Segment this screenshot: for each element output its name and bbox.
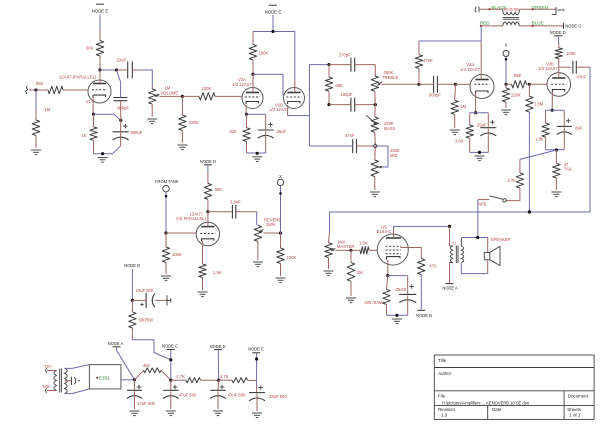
node input junction <box>34 88 37 91</box>
wire RED primary lead <box>481 25 503 27</box>
wire GREEN secondary lead <box>519 8 556 10</box>
wire 470K to V3a plate node <box>419 40 481 42</box>
svg-text:3.6K: 3.6K <box>455 139 464 144</box>
node bass mid junction diamond <box>373 144 377 148</box>
svg-text:T2B: T2B <box>42 384 50 389</box>
svg-text:270pF: 270pF <box>339 52 351 57</box>
svg-text:NODE B: NODE B <box>124 263 140 268</box>
ground input load <box>31 149 41 151</box>
wire V2B plate to node E rail <box>294 32 296 81</box>
potentiometer 1MA MASTER <box>329 232 330 243</box>
wire V2A plate to V2B grid <box>253 74 283 95</box>
wire output bus right <box>589 67 591 212</box>
svg-text:NFB: NFB <box>478 201 487 206</box>
ground node C cap <box>166 410 176 412</box>
svg-text:NODE D: NODE D <box>210 344 226 349</box>
node treble mix junction <box>417 83 420 86</box>
rectifier U EZ81 <box>65 365 90 369</box>
ground reverb pot <box>253 261 263 263</box>
ground V3a cathode <box>475 155 485 157</box>
lead V1 cathode <box>92 98 94 115</box>
wire cathode network top <box>247 113 266 115</box>
wire mid pot loop <box>375 146 388 167</box>
svg-text:2.7K: 2.7K <box>507 178 516 183</box>
resistor 56K V4 plate load <box>207 166 209 174</box>
resistor 1M V3a grid leak <box>454 84 457 100</box>
capacitor 800uF cathode bypass <box>113 131 129 133</box>
ground 220K reverb out <box>276 277 286 279</box>
node B+ junction <box>133 378 136 381</box>
svg-text:4.7K: 4.7K <box>220 374 229 379</box>
resistor 100K V3b plate load <box>557 37 560 45</box>
wire to treble pot top <box>374 65 376 76</box>
wire EZ81 output to B+ <box>121 379 135 381</box>
wire treble wiper to mix node <box>382 83 420 85</box>
svg-text:47uF 500: 47uF 500 <box>179 393 197 398</box>
ground volume pot <box>147 118 157 120</box>
wire BLACK secondary lead <box>479 8 503 10</box>
svg-text:470K: 470K <box>423 58 433 63</box>
ground V2A cathode <box>252 156 262 158</box>
svg-text:V4( PARALLEL): V4( PARALLEL) <box>176 216 207 221</box>
wire signal bus to master volume <box>330 212 591 232</box>
svg-text:1/2 12AX7: 1/2 12AX7 <box>538 66 558 71</box>
node U5 cathode junction <box>386 274 389 277</box>
terminal 10uF return <box>166 295 168 305</box>
svg-text:56K: 56K <box>215 187 223 192</box>
svg-text:500pF: 500pF <box>429 93 441 98</box>
potentiometer 1M VOLUME <box>151 86 153 89</box>
svg-text:47nF: 47nF <box>577 74 587 79</box>
svg-text:SPEAKER: SPEAKER <box>491 237 511 242</box>
svg-text:NODE D: NODE D <box>200 159 216 164</box>
svg-text:BASS: BASS <box>384 126 395 131</box>
resistor 47 TAIL <box>555 150 557 163</box>
node V3a grid junction <box>454 83 457 86</box>
wire OT secondary to speaker <box>460 238 462 247</box>
wire to reverb pot <box>256 212 258 226</box>
wire NFB diagonal <box>520 150 557 159</box>
wire V3b cathode network top <box>546 109 565 111</box>
svg-text:MASTER: MASTER <box>337 244 354 249</box>
wire node E rail V2 <box>253 31 295 33</box>
svg-text:TAIL: TAIL <box>564 167 573 172</box>
svg-text:NODE E: NODE E <box>92 9 109 14</box>
svg-text:BLUE: BLUE <box>532 21 544 26</box>
capacitor 47uF 500 node C <box>170 380 172 390</box>
wire reverb wiper <box>264 232 281 234</box>
wire cathode network bottom rail <box>387 314 408 316</box>
svg-text:22uF: 22uF <box>117 58 127 63</box>
lead V3b cathode <box>551 92 553 110</box>
node B stub screen supply <box>420 275 422 310</box>
resistor 100K tank load <box>165 233 167 247</box>
node B junction <box>131 299 134 302</box>
svg-text:100pF: 100pF <box>341 92 353 97</box>
svg-text:1.8M: 1.8M <box>534 102 544 107</box>
svg-text:220K: 220K <box>202 86 212 91</box>
wire cathode bottom rail <box>94 146 121 154</box>
svg-text:EL84-C: EL84-C <box>377 229 391 234</box>
ground 220K <box>177 144 187 146</box>
lead V3a plate <box>480 41 482 80</box>
svg-text:tank: tank <box>558 8 565 12</box>
capacitor 47uF 500 node D <box>217 380 220 390</box>
node V3b cathode junction <box>551 109 554 112</box>
svg-text:1 of 1: 1 of 1 <box>569 412 581 417</box>
svg-text:1/2 12AX7: 1/2 12AX7 <box>460 67 480 72</box>
ground 100K tank <box>161 275 171 277</box>
lead V4 grid <box>166 232 197 234</box>
node V3b grid junction <box>528 83 531 86</box>
wire NFB to output transformer <box>477 200 479 238</box>
wire tone stack left bus <box>308 65 310 146</box>
lead reverb pot bottom <box>257 241 259 260</box>
svg-text:NODE B: NODE B <box>416 313 432 318</box>
svg-text:100K: 100K <box>172 252 182 257</box>
svg-text:Revision: Revision <box>438 407 455 412</box>
wire master wiper <box>335 249 351 251</box>
svg-text:10uF 500: 10uF 500 <box>136 288 154 293</box>
svg-text:4.7K: 4.7K <box>176 374 185 379</box>
wire V3a cathode network top <box>470 112 489 114</box>
svg-text:500pF: 500pF <box>117 106 129 111</box>
capacitor 500pF <box>113 97 127 99</box>
svg-text:NODE A: NODE A <box>442 286 458 291</box>
wire volume wiper <box>160 95 183 97</box>
svg-text:T2A: T2A <box>44 364 52 369</box>
wire 500/5W to node C <box>132 340 170 360</box>
svg-text:400 /6.5W: 400 /6.5W <box>364 300 383 305</box>
svg-text:25uF: 25uF <box>277 129 287 134</box>
svg-text:T1: T1 <box>452 242 456 246</box>
node V4 plate junction <box>206 210 209 213</box>
ground node E cap <box>252 412 262 414</box>
resistor 220K reverb out <box>280 233 282 248</box>
svg-text:220K: 220K <box>287 255 297 260</box>
resistor 220K reverb mix <box>505 84 507 88</box>
capacitor 8uF bypass <box>557 125 572 127</box>
ground 1M master <box>346 297 356 299</box>
svg-text:86K: 86K <box>36 81 44 86</box>
svg-text:Document: Document <box>568 393 589 398</box>
svg-text:8uF: 8uF <box>575 125 583 130</box>
resistor 68K plate load V1 <box>96 41 103 57</box>
ground V4 cathode <box>198 291 208 293</box>
svg-text:MID: MID <box>390 153 398 158</box>
resistor 470K <box>418 68 420 84</box>
svg-text:1M: 1M <box>460 104 466 109</box>
lead R68K to plate node <box>99 56 101 70</box>
wire cathode network bottom <box>247 152 266 154</box>
node V1 cathode junction <box>92 113 95 116</box>
lead V2A cathode <box>245 105 247 114</box>
resistor 220K to ground <box>181 96 183 115</box>
svg-text:4k6: 4k6 <box>143 363 150 368</box>
capacitor 25uF cathode bypass <box>258 129 274 131</box>
resistor 500/5W dropper <box>131 300 133 312</box>
node mid rail junction <box>327 103 330 106</box>
svg-text:1K: 1K <box>81 133 86 138</box>
svg-text:68K: 68K <box>335 83 343 88</box>
svg-text:NODE D: NODE D <box>550 30 566 35</box>
svg-text:File: File <box>438 394 446 399</box>
node V1 plate junction <box>98 68 101 71</box>
lead V1 plate <box>99 70 101 84</box>
node V2A plate junction <box>251 73 254 76</box>
wire plate node to coupling cap <box>100 69 117 71</box>
svg-text:800uF: 800uF <box>130 130 142 135</box>
svg-text:RED: RED <box>480 21 490 26</box>
svg-text:1.0: 1.0 <box>441 412 448 417</box>
svg-text:1.5K: 1.5K <box>213 270 222 275</box>
node C terminal right <box>563 23 565 29</box>
wire top rail to 270pF <box>309 64 329 66</box>
node E stub (V2 supply) <box>269 4 277 6</box>
svg-text:NODE C: NODE C <box>565 23 581 28</box>
lead V2B cathode to tone bus <box>287 105 289 116</box>
resistor 1.8k V3b cathode <box>545 110 547 123</box>
terminal tank <box>555 7 557 15</box>
svg-text:66K: 66K <box>86 46 94 51</box>
node X junction <box>504 83 507 86</box>
capacitor 25uF V3a bypass <box>480 127 496 129</box>
svg-text:EZ81: EZ81 <box>99 376 110 381</box>
lead master pot bottom <box>328 258 330 269</box>
lead V3a grid <box>456 83 471 85</box>
resistor 100K V2A plate load <box>252 32 254 45</box>
ground master pot <box>324 270 334 272</box>
svg-text:X: X <box>279 174 282 179</box>
svg-text:25uF: 25uF <box>477 123 487 128</box>
resistor 1M master load <box>350 250 352 262</box>
svg-text:1.8k: 1.8k <box>535 137 544 142</box>
capacitor 25/40 cathode bypass <box>388 275 408 277</box>
svg-text:1M: 1M <box>45 107 51 112</box>
wire transformer center tap <box>65 380 72 382</box>
lead V3b grid <box>529 83 547 85</box>
resistor 1.8M grid leak <box>528 84 530 96</box>
wire plate junction to 500pF <box>117 70 121 97</box>
svg-text:TREBLE: TREBLE <box>382 75 398 80</box>
svg-text:NODE C: NODE C <box>162 343 178 348</box>
svg-text:220K: 220K <box>189 120 199 125</box>
resistor 1.5K V4 cathode <box>199 264 206 278</box>
node E stub (V1 plate supply) <box>96 3 104 5</box>
lead bass bottom <box>374 132 377 146</box>
svg-text:68K: 68K <box>514 73 522 78</box>
resistor 1M input load <box>35 90 37 110</box>
ground V1 cathode <box>98 157 108 159</box>
svg-text:VOLUME: VOLUME <box>161 90 179 95</box>
svg-text:1/2 12AX7: 1/2 12AX7 <box>269 107 289 112</box>
ground mid pot <box>370 191 380 193</box>
svg-text:100K: 100K <box>259 50 269 55</box>
svg-text:33uF 500: 33uF 500 <box>269 394 287 399</box>
resistor 1K cathode <box>93 114 95 127</box>
svg-text:12AX7 (PARALLEL): 12AX7 (PARALLEL) <box>59 74 97 79</box>
wire U5 plate to output transformer <box>393 230 395 238</box>
svg-text:X: X <box>505 43 508 48</box>
svg-text:250K: 250K <box>266 222 276 227</box>
svg-text:47nF: 47nF <box>345 133 355 138</box>
svg-text:REVERB: REVERB <box>504 8 519 12</box>
svg-text:100K: 100K <box>566 51 576 56</box>
lead U5 cathode <box>387 260 389 276</box>
resistor 470 screen <box>418 258 425 274</box>
svg-text:NODE A: NODE A <box>108 341 124 346</box>
svg-text:1M: 1M <box>357 270 363 275</box>
ground main filter <box>130 410 140 412</box>
node V2A cathode junction <box>245 113 248 116</box>
capacitor 33uF 500 node E <box>256 381 258 385</box>
title block <box>434 355 594 419</box>
wire V3a cathode network bottom <box>470 151 489 153</box>
lead V4 cathode <box>202 241 204 265</box>
resistor 2.7K NFB <box>519 159 521 173</box>
svg-text:V1: V1 <box>86 99 92 104</box>
svg-text:3.3nF: 3.3nF <box>230 200 241 205</box>
capacitor 47uF 500 main filter <box>134 380 136 391</box>
resistor 3.6K <box>469 113 471 125</box>
svg-text:1/2 12AX7: 1/2 12AX7 <box>232 82 252 87</box>
node D junction <box>217 379 220 382</box>
node C junction <box>169 379 172 382</box>
node V4 grid junction <box>164 231 167 234</box>
terminal reverb send jack <box>475 7 476 12</box>
svg-text:1.5K: 1.5K <box>359 240 368 245</box>
wire cathode to bypass caps <box>94 114 121 120</box>
wire RED down to V3a plate <box>480 26 482 41</box>
svg-text:Author: Author <box>438 371 451 376</box>
svg-text:500/5W: 500/5W <box>139 317 153 322</box>
svg-text:FROM TANK: FROM TANK <box>155 179 179 184</box>
input jack S <box>26 87 28 94</box>
svg-text:470: 470 <box>429 263 437 268</box>
lead V3a cathode <box>475 94 477 113</box>
wire 22uF to volume pot <box>140 70 152 86</box>
ground 1M <box>450 129 460 131</box>
node A stub OT primary <box>449 263 451 284</box>
switch NFB <box>503 199 506 202</box>
ground 220K reverb <box>501 109 511 111</box>
wire 1.8M to signal bus <box>528 112 530 212</box>
lead volume pot bottom <box>151 104 153 117</box>
svg-text:NODE E: NODE E <box>265 10 282 15</box>
capacitor 47nF output coupling <box>559 66 571 68</box>
wire node E to R 68K <box>99 15 101 31</box>
lead U5 screen grid <box>401 246 421 258</box>
svg-text:220K: 220K <box>511 93 521 98</box>
svg-text:47uF 500: 47uF 500 <box>137 401 155 406</box>
svg-text:Sheets: Sheets <box>567 407 581 412</box>
svg-text:H:\pictures\Amplifiers ... K: H:\pictures\Amplifiers ... KENOVERB 10 S… <box>442 401 530 406</box>
svg-text:820: 820 <box>230 129 238 134</box>
wire V3b cathode network bottom <box>546 149 565 151</box>
ground node D cap <box>213 410 223 412</box>
svg-text:Title: Title <box>438 358 447 363</box>
svg-text:47uF 500: 47uF 500 <box>228 393 246 398</box>
svg-text:25/40: 25/40 <box>396 287 407 292</box>
resistor 400 6.5W cathode <box>387 276 388 290</box>
svg-text:Date: Date <box>492 407 502 412</box>
wire BLUE primary lead <box>519 25 563 27</box>
ground U5 cathode <box>392 318 402 320</box>
lead mid pot bottom <box>374 177 376 191</box>
node V3a cathode junction <box>474 111 477 114</box>
svg-text:NODE E: NODE E <box>248 346 264 351</box>
ground tail resistor <box>551 191 561 193</box>
lead treble bottom <box>374 91 377 104</box>
